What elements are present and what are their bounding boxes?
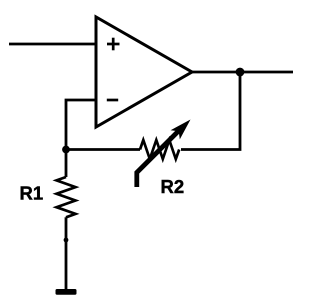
wire: R1 to ground <box>65 217 68 289</box>
wire: feedback horizontal to inverting node <box>66 148 140 151</box>
node: small junction dot above ground <box>64 238 69 243</box>
ground <box>56 289 77 295</box>
op-amp plus input symbol <box>107 38 120 51</box>
potentiometer R2 wiper arrow <box>137 120 191 188</box>
svg-text:R2: R2 <box>161 176 185 197</box>
op-amp minus input symbol <box>107 99 118 102</box>
svg-text:R1: R1 <box>20 183 44 204</box>
resistor R1 zigzag <box>57 177 76 217</box>
node: inverting input junction <box>62 146 70 154</box>
wire: inverting input from node <box>66 100 96 150</box>
wire: node to R1 <box>65 150 68 178</box>
wire: output <box>192 71 293 74</box>
op-amp U1 <box>96 17 192 127</box>
wire: non-inverting input <box>9 43 96 46</box>
node: output junction <box>236 68 245 77</box>
potentiometer R2 zigzag <box>140 140 179 159</box>
wire: feedback vertical from output node <box>181 72 240 150</box>
